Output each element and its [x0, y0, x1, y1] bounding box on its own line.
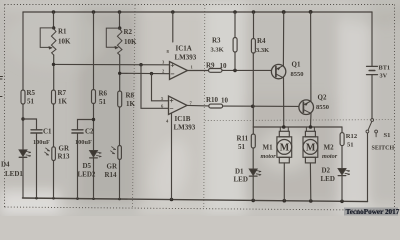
- svg-text:LED2: LED2: [78, 171, 96, 179]
- node: wire2 source junction: [118, 72, 121, 75]
- wire: Q1 emitter to top bus: [282, 12, 284, 65]
- wire: M1 to bottom bus: [283, 163, 285, 201]
- scan artifacts at left page edge: [0, 77, 3, 97]
- svg-text:LED1: LED1: [5, 170, 23, 178]
- svg-text:D5: D5: [83, 162, 92, 170]
- wire: motor top rail (R11 to R12): [253, 126, 342, 128]
- resistor R11: [251, 134, 255, 148]
- fold crease dotted line middle: [204, 5, 205, 207]
- svg-text:51: 51: [27, 98, 35, 106]
- value label Q1 8550: [291, 61, 304, 79]
- svg-text:IC1A: IC1A: [176, 45, 192, 53]
- svg-text:100uF: 100uF: [33, 139, 50, 146]
- svg-text:LM393: LM393: [175, 54, 197, 62]
- svg-text:LED: LED: [234, 176, 248, 184]
- svg-text:D2: D2: [322, 167, 331, 175]
- value label R11 51: [237, 135, 249, 152]
- value label R8 1K: [126, 92, 136, 109]
- wire: R3 rail from top bus: [234, 12, 236, 70]
- wire: right rail top bus to battery: [371, 12, 373, 66]
- resistor R6: [92, 90, 96, 104]
- value label GR R13: [58, 145, 71, 161]
- value label D5 LED2: [78, 162, 96, 179]
- wire: R12/D2 branch from motor wire: [341, 127, 343, 201]
- wire: rail 1 (left, R5/D4 branch): [22, 12, 24, 198]
- svg-text:3.3K: 3.3K: [211, 47, 224, 54]
- resistor R10: [209, 104, 223, 108]
- svg-text:Q1: Q1: [292, 61, 301, 69]
- value label M letter inside motor M1: [280, 143, 290, 154]
- wire: comparator input wire 2 (R2 divider to IC1A -): [120, 72, 170, 74]
- wire: IC1A output to R9: [188, 70, 209, 72]
- photoresistor R13 (GR) with light arrows: [45, 147, 56, 161]
- value label C2 100uF: [75, 128, 94, 147]
- watermark TecnoPower 2017: [344, 208, 400, 217]
- value label S1 SEITCH: [372, 132, 395, 152]
- resistor R5: [21, 90, 25, 104]
- wire: rail 3 (R6/D5 branch): [93, 12, 95, 199]
- svg-text:R11: R11: [237, 135, 249, 143]
- svg-text:motor: motor: [322, 153, 338, 160]
- svg-text:R13: R13: [58, 153, 71, 161]
- svg-text:R3: R3: [212, 37, 221, 45]
- LED D1: [249, 169, 261, 176]
- resistor R12: [340, 133, 344, 146]
- wire: rail 4 (R2/R8/R14 branch): [119, 12, 121, 199]
- svg-text:M1: M1: [263, 144, 274, 152]
- wire: comparator input wire 1 (R1 divider to IC1A +): [54, 63, 170, 65]
- svg-text:R1: R1: [58, 28, 67, 36]
- fold crease dotted line left: [133, 5, 136, 207]
- svg-text:GR: GR: [107, 163, 118, 171]
- value label M1 motor: [261, 144, 277, 161]
- value label BT1 3V: [379, 65, 391, 80]
- svg-text:8550: 8550: [291, 71, 304, 78]
- svg-text:51: 51: [347, 142, 354, 149]
- value label GR R14: [105, 163, 118, 180]
- resistor R4: [251, 39, 255, 54]
- node: wire1 / IC1B branch junction: [139, 63, 142, 66]
- value label R2 10K: [124, 28, 138, 46]
- svg-text:10: 10: [221, 97, 229, 105]
- svg-text:10: 10: [220, 62, 228, 70]
- photoresistor R14 (GR) with light arrows: [111, 146, 122, 160]
- op-amp IC1B (LM393): [169, 96, 188, 115]
- node: trimpot R2 wiper junction: [118, 26, 121, 29]
- wire: R9 to R3 node to Q1 base: [222, 69, 272, 71]
- value label M letter inside motor M2: [306, 143, 316, 154]
- svg-text:R6: R6: [99, 90, 108, 98]
- battery BT1: [367, 66, 378, 74]
- svg-text:3V: 3V: [380, 73, 388, 80]
- svg-text:C2: C2: [85, 128, 94, 136]
- LED D4: [19, 150, 31, 158]
- node: R9 / R3 junction: [233, 69, 237, 73]
- svg-text:1K: 1K: [126, 100, 136, 108]
- svg-text:8550: 8550: [316, 104, 329, 111]
- svg-text:M: M: [280, 143, 290, 154]
- wire: C2 tee from rail3: [78, 120, 94, 199]
- wire: C1 tee from rail1: [23, 119, 37, 198]
- node: wire2 / IC1B branch junction: [150, 72, 153, 75]
- pin numbers IC1A (3,2,1) and IC1B (5,6,7): [161, 49, 194, 124]
- wire: bottom ground bus: [23, 198, 368, 202]
- svg-text:Q2: Q2: [318, 94, 327, 102]
- transistor Q1 (8550 PNP): [271, 64, 285, 78]
- svg-text:3.3K: 3.3K: [256, 47, 269, 54]
- resistor R7: [52, 90, 56, 104]
- svg-text:1K: 1K: [58, 98, 68, 106]
- svg-text:R8: R8: [126, 92, 135, 100]
- value label IC1A LM393: [175, 45, 197, 62]
- wire: rail 2 (R1/R7/R13 branch): [53, 12, 55, 198]
- svg-text:R7: R7: [58, 89, 67, 97]
- node: Q2 collector / motor wire junction: [309, 125, 313, 129]
- wire: Q1 collector down to motor wire: [283, 78, 285, 127]
- value label Q2 8550: [316, 94, 329, 112]
- svg-text:IC1B: IC1B: [175, 115, 191, 123]
- resistor R8: [118, 91, 122, 107]
- node: top bus junction dots: [52, 10, 313, 14]
- value label D2 LED: [321, 167, 335, 184]
- wire: M2 to bottom bus: [309, 163, 311, 201]
- value label M2 motor: [322, 144, 338, 161]
- node: R10 / R4 junction: [251, 105, 255, 109]
- svg-text:LM393: LM393: [174, 124, 196, 132]
- op-amp IC1A (LM393): [170, 62, 188, 80]
- motor M2: [303, 127, 318, 163]
- svg-text:motor: motor: [261, 153, 277, 160]
- potentiometer R2 (trimmer, wiper loop + arrow): [106, 28, 122, 55]
- wire: switch to bottom bus right corner: [367, 133, 369, 202]
- svg-text:10K: 10K: [124, 38, 137, 46]
- svg-text:R14: R14: [105, 171, 118, 179]
- node: trimpot R1 wiper junction: [52, 26, 55, 29]
- svg-text:R10: R10: [206, 96, 219, 104]
- wire: Q2 emitter to top bus: [310, 12, 312, 101]
- value label R9 10: [206, 62, 227, 71]
- node: bottom bus junction dots: [35, 197, 344, 203]
- wire: battery to switch: [371, 75, 373, 119]
- node: Q1 collector / motor wire junction: [282, 125, 286, 129]
- resistor R9: [209, 69, 223, 73]
- switch S1: [366, 119, 378, 137]
- svg-text:10K: 10K: [58, 38, 71, 46]
- svg-text:M2: M2: [324, 144, 335, 152]
- svg-text:TecnoPower 2017: TecnoPower 2017: [346, 208, 400, 216]
- value label R4 3.3K: [256, 37, 269, 54]
- wire: branch to IC1B non-inverting input: [152, 74, 169, 101]
- svg-text:SEITCH: SEITCH: [372, 146, 395, 152]
- svg-text:GR: GR: [59, 145, 70, 153]
- svg-text:LED: LED: [321, 175, 335, 183]
- motor M1: [277, 127, 292, 163]
- value label R5 51: [27, 89, 36, 106]
- node: rail1 / C1 tee junction: [21, 117, 24, 120]
- capacitor C1: [31, 130, 42, 133]
- node: rail3 / C2 tee junction: [92, 118, 95, 121]
- value label IC1B LM393: [174, 115, 196, 132]
- value label R12 51: [346, 133, 358, 149]
- value label R3 3.3K: [211, 37, 224, 54]
- capacitor C2: [72, 130, 83, 133]
- svg-text:R9: R9: [206, 62, 215, 70]
- wire: R10 to R4 node to Q2 base: [223, 105, 299, 107]
- svg-text:BT1: BT1: [379, 65, 391, 72]
- resistor R3: [233, 38, 237, 53]
- wire: Q2 collector down to motor wire: [310, 113, 313, 127]
- transistor Q2 (8550 PNP): [299, 100, 314, 115]
- LED D2: [338, 169, 350, 176]
- svg-text:D4: D4: [1, 161, 10, 169]
- LED D5: [90, 150, 102, 158]
- svg-text:D1: D1: [235, 168, 244, 176]
- svg-text:R5: R5: [27, 89, 36, 97]
- svg-text:S1: S1: [384, 132, 391, 139]
- svg-text:51: 51: [99, 98, 107, 106]
- wire: IC1B ground stub to bottom bus: [171, 113, 173, 199]
- svg-text:M: M: [306, 143, 316, 154]
- value label D1 LED: [234, 168, 248, 184]
- svg-text:51: 51: [238, 143, 246, 151]
- svg-text:C1: C1: [43, 128, 52, 136]
- wire: IC1A V+ stub from top bus: [172, 12, 174, 42]
- node: wire1 source junction: [52, 63, 55, 66]
- value label R7 1K: [58, 89, 68, 106]
- svg-text:100uF: 100uF: [75, 139, 92, 146]
- value label R10 10: [206, 96, 229, 105]
- fold crease dotted line horizontal: [205, 120, 392, 121]
- wire: top supply bus: [23, 11, 372, 13]
- wire: R4/R11/D1 rail from top bus: [252, 12, 254, 200]
- value label R1 10K: [58, 28, 71, 46]
- value label R6 51: [99, 90, 108, 107]
- svg-text:R12: R12: [346, 133, 358, 140]
- svg-text:R2: R2: [124, 28, 133, 36]
- svg-text:R4: R4: [257, 37, 266, 45]
- potentiometer R1 (trimmer, wiper loop + arrow): [40, 28, 56, 55]
- wire: branch to IC1B inverting input: [141, 65, 169, 109]
- wire: IC1B output to R10: [187, 104, 209, 107]
- value label C1 100uF: [33, 128, 52, 147]
- value label D4 LED1: [1, 161, 23, 179]
